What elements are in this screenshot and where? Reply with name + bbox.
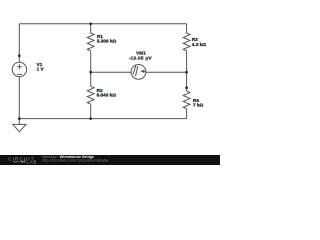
svg-text:5.309 kΩ: 5.309 kΩ: [97, 39, 117, 44]
svg-text:7 kΩ: 7 kΩ: [193, 103, 204, 108]
svg-text:4.3 kΩ: 4.3 kΩ: [192, 42, 206, 47]
svg-text:R3: R3: [192, 37, 198, 42]
svg-text:1 V: 1 V: [37, 66, 45, 71]
svg-text:-12.05 µV: -12.05 µV: [129, 55, 153, 60]
svg-text:LAB: LAB: [26, 159, 37, 164]
svg-text:8.643 kΩ: 8.643 kΩ: [97, 92, 117, 97]
svg-text:http://circuitlab.com/c7yq2wsn: http://circuitlab.com/c7yq2wsnlnm8bq6w: [42, 158, 108, 162]
